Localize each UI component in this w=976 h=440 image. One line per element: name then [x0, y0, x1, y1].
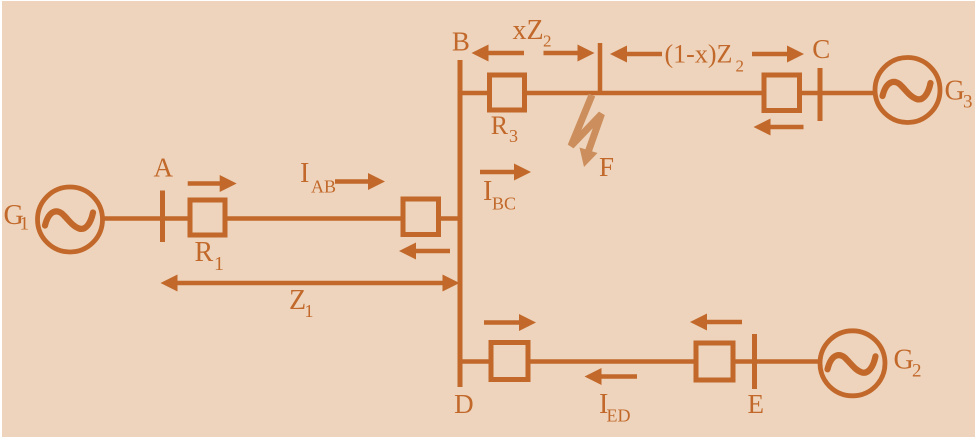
svg-text:2: 2	[736, 57, 745, 76]
svg-text:R: R	[491, 111, 509, 140]
(1-x)Z2 left arrow (to fault)	[610, 46, 662, 63]
svg-text:ED: ED	[607, 406, 631, 426]
xZ2 left arrow (to B)	[472, 45, 525, 62]
svg-text:AB: AB	[311, 177, 336, 197]
bus C tick	[818, 68, 823, 121]
generator G2	[820, 331, 885, 396]
svg-text:3: 3	[509, 126, 518, 146]
generator G3	[875, 58, 940, 123]
label I_BC	[483, 176, 516, 214]
svg-text:I: I	[300, 158, 309, 189]
svg-text:1: 1	[214, 253, 224, 275]
wire R3 to relay near C	[527, 91, 762, 96]
bus B-D vertical	[458, 60, 463, 387]
svg-text:R: R	[195, 237, 214, 268]
xZ2 right arrow (to fault)	[544, 45, 595, 62]
svg-text:F: F	[599, 152, 614, 182]
wire bottom-right relay to G2	[736, 359, 822, 364]
wire relay to G3	[802, 91, 876, 96]
label Z1	[289, 285, 314, 321]
svg-text:3: 3	[963, 92, 973, 113]
svg-text:1: 1	[20, 214, 30, 235]
svg-text:G: G	[945, 76, 965, 107]
fault point tick	[598, 43, 603, 93]
fault lightning bolt	[571, 95, 602, 167]
svg-text:xZ: xZ	[513, 15, 544, 46]
svg-text:D: D	[454, 389, 474, 419]
relay near bus C	[764, 75, 800, 111]
relay bottom-left	[491, 343, 528, 380]
arrow current at A (right)	[188, 175, 237, 192]
relay R3	[490, 75, 525, 110]
label R3	[491, 111, 518, 146]
svg-text:2: 2	[543, 32, 552, 51]
arrow I_ED (left)	[585, 368, 638, 385]
generator G1	[38, 187, 103, 252]
wire R1 to middle relay	[228, 216, 404, 221]
bus A tick	[160, 191, 165, 243]
relay at bus B-D (line AB end)	[403, 199, 439, 235]
Z1 span double arrow	[161, 275, 460, 292]
label I_AB	[300, 158, 336, 197]
label G2	[894, 345, 922, 382]
arrow below middle relay (left)	[399, 243, 450, 260]
(1-x)Z2 right arrow (to C)	[752, 46, 804, 63]
label I_ED	[599, 389, 631, 426]
svg-text:(1-x)Z: (1-x)Z	[665, 40, 733, 69]
wire middle relay to bus	[441, 216, 460, 221]
svg-text:C: C	[812, 34, 830, 64]
label xZ2	[513, 15, 552, 51]
arrow below relay near C (left)	[754, 119, 804, 136]
label (1-x)Z2	[665, 40, 745, 76]
wire bus D to bottom-left relay	[460, 359, 491, 364]
svg-text:E: E	[747, 389, 764, 419]
wire G1 to bus A	[102, 216, 190, 221]
svg-text:1: 1	[305, 301, 314, 321]
relay R1	[190, 200, 225, 235]
arrow above bottom-right relay (left)	[690, 314, 742, 331]
wire bottom-left relay to bottom-right relay	[531, 359, 697, 364]
arrow I_AB (right)	[335, 173, 385, 190]
svg-text:B: B	[452, 27, 470, 57]
label G3	[945, 76, 973, 113]
svg-text:A: A	[153, 153, 173, 183]
label R1	[195, 237, 225, 275]
arrow above bottom-left relay (right)	[484, 314, 536, 331]
svg-text:I: I	[483, 176, 492, 207]
svg-text:G: G	[894, 345, 914, 376]
label G1	[4, 200, 30, 235]
svg-text:BC: BC	[492, 194, 516, 214]
arrow I_BC (right)	[480, 164, 531, 181]
svg-text:2: 2	[912, 361, 922, 382]
wire bus B to relay R3	[460, 91, 490, 96]
relay bottom-right	[696, 343, 733, 380]
bus E tick	[752, 334, 757, 389]
